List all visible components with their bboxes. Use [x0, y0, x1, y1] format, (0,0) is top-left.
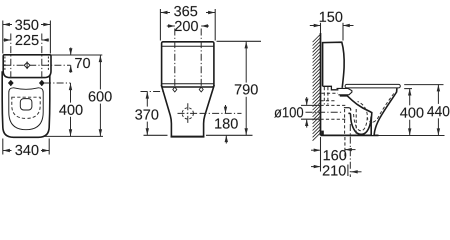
- left view: cistern centerline to 70-dim: [4, 64, 71, 66]
- side view: floor line: [321, 134, 445, 136]
- front view: fixing centerline left: [174, 29, 176, 89]
- dim 340 extension lines: [3, 139, 49, 155]
- dim 160 extension line (dashed): [344, 137, 346, 157]
- front view floor extension left: [144, 134, 168, 136]
- dim 210 arrows: [311, 165, 362, 174]
- side view: outlet pipe centerline (horizontal): [306, 111, 343, 113]
- left view: fixing hole centerline right: [41, 34, 43, 87]
- dim 340 line and arrows: [3, 149, 49, 152]
- front view: fixing marker left: [173, 87, 177, 92]
- side view: seat hinge block: [337, 88, 352, 94]
- dim 790 line: [245, 41, 248, 135]
- left view: bowl outer outline (plan): [2, 72, 50, 137]
- dim 70 label: [75, 58, 90, 68]
- dim 180 arrows: [224, 105, 228, 144]
- side view: trap inlet and slope (bold): [340, 96, 372, 135]
- front view: drain crosshair: [178, 103, 199, 123]
- side view: wall extension below floor: [320, 137, 322, 172]
- dim o100 arrows: [305, 97, 308, 128]
- dim 340 label: [15, 145, 38, 155]
- dim 180 centerline extension: [200, 112, 242, 114]
- dim 440 top extension (seat): [404, 84, 443, 86]
- dim 365 line and arrows: [160, 11, 215, 14]
- dim 70 arrows: [69, 48, 72, 73]
- front view: drain circle (dashed): [182, 108, 193, 119]
- dim 225 line and arrows: [4, 38, 50, 41]
- side view: vertical outlet pipe (dashed): [345, 109, 357, 135]
- side view: trap weir line (bold): [344, 108, 351, 111]
- side view: bowl inner surface (dashed): [367, 94, 394, 123]
- side view: outlet centerline (vertical): [349, 124, 351, 177]
- dim 225 label: [16, 35, 39, 45]
- dim 440 line: [437, 84, 440, 135]
- dim 370 line: [146, 92, 149, 136]
- dim 400 label: [400, 107, 423, 117]
- dim 400 line: [69, 83, 72, 136]
- dim 150 label: [320, 12, 343, 22]
- dim 400 top extension (rim): [404, 88, 412, 90]
- dim 400 label: [59, 105, 82, 115]
- dim 210 extension line: [347, 165, 349, 177]
- dim 790 label: [235, 84, 258, 94]
- side view: wall line: [320, 33, 322, 135]
- front view: fixing marker right: [199, 87, 203, 92]
- front view: cistern outline: [162, 42, 214, 87]
- dim 365 label: [174, 6, 197, 16]
- dim 160 arrows: [311, 148, 356, 152]
- front view: bowl body outline: [162, 86, 214, 137]
- dim 160 label: [324, 150, 347, 160]
- left view: supply hole marker: [24, 62, 30, 70]
- left view bottom extension to 600-dim: [45, 135, 104, 137]
- dim 600 line: [99, 55, 102, 136]
- dim 790 top extension: [217, 40, 262, 42]
- front view: supply height centerline: [141, 91, 164, 93]
- dim 350 extension lines: [3, 21, 51, 54]
- side view: horizontal outlet pipe (dashed): [321, 105, 348, 119]
- side view: cistern bottom step: [323, 86, 339, 90]
- dim 365 extension lines: [160, 9, 215, 41]
- dim 200 label: [175, 21, 198, 31]
- side view: trap U outline (bold): [348, 113, 371, 134]
- dim 400 line: [408, 88, 411, 135]
- side view: flush channel (dashed): [322, 92, 339, 94]
- front view floor extension right: [206, 134, 253, 136]
- left view: seat fixing marker left: [8, 80, 13, 85]
- front view: pedestal base bold line: [171, 136, 205, 138]
- dim 150 line and arrows: [310, 24, 354, 27]
- side view: bowl front profile (bold): [374, 88, 397, 135]
- left view: fixing hole centerline left: [10, 34, 12, 87]
- front view: fixing centerline right: [200, 29, 202, 89]
- side view: supply pipe (dashed): [321, 87, 336, 105]
- front view: cistern lid seam: [162, 45, 214, 47]
- dim 440 label: [427, 106, 449, 116]
- dim o100 extension lines: [301, 105, 321, 119]
- side view: seat (outlined bar): [345, 84, 400, 88]
- dim 600 label: [89, 91, 112, 101]
- left view: cistern outline (plan): [3, 55, 51, 78]
- left view: seat fixing marker right: [39, 80, 44, 85]
- dim 180 label: [215, 118, 238, 128]
- dim 210 label: [323, 165, 346, 175]
- left view: hidden bowl edge right (dashed): [47, 57, 49, 71]
- dim 200 line and arrows: [167, 24, 209, 27]
- left view: seat fixing centerline to 400-dim: [44, 82, 71, 84]
- dim 350 label: [15, 20, 38, 30]
- left view: water surface (dashed): [12, 97, 40, 118]
- dim 350 line and arrows: [3, 23, 51, 26]
- side view: wall hatching: [313, 35, 321, 141]
- left view: hidden bowl edge left (dashed): [4, 57, 6, 71]
- dim 370 label: [135, 109, 158, 119]
- left view: inner rim opening: [9, 88, 43, 130]
- left view: drain hole (plan): [20, 99, 32, 110]
- dim 70 top extension (cistern top): [51, 54, 102, 56]
- side view: bowl body fill: [340, 88, 397, 135]
- dim 150 extension lines: [321, 23, 344, 41]
- front view: cistern/bowl seam lines: [162, 84, 214, 87]
- side view: trap internals (dashed): [354, 102, 368, 131]
- side view: cistern profile: [323, 42, 345, 88]
- dim o100 label: [274, 107, 303, 117]
- side view: wall-floor corner block: [321, 131, 324, 136]
